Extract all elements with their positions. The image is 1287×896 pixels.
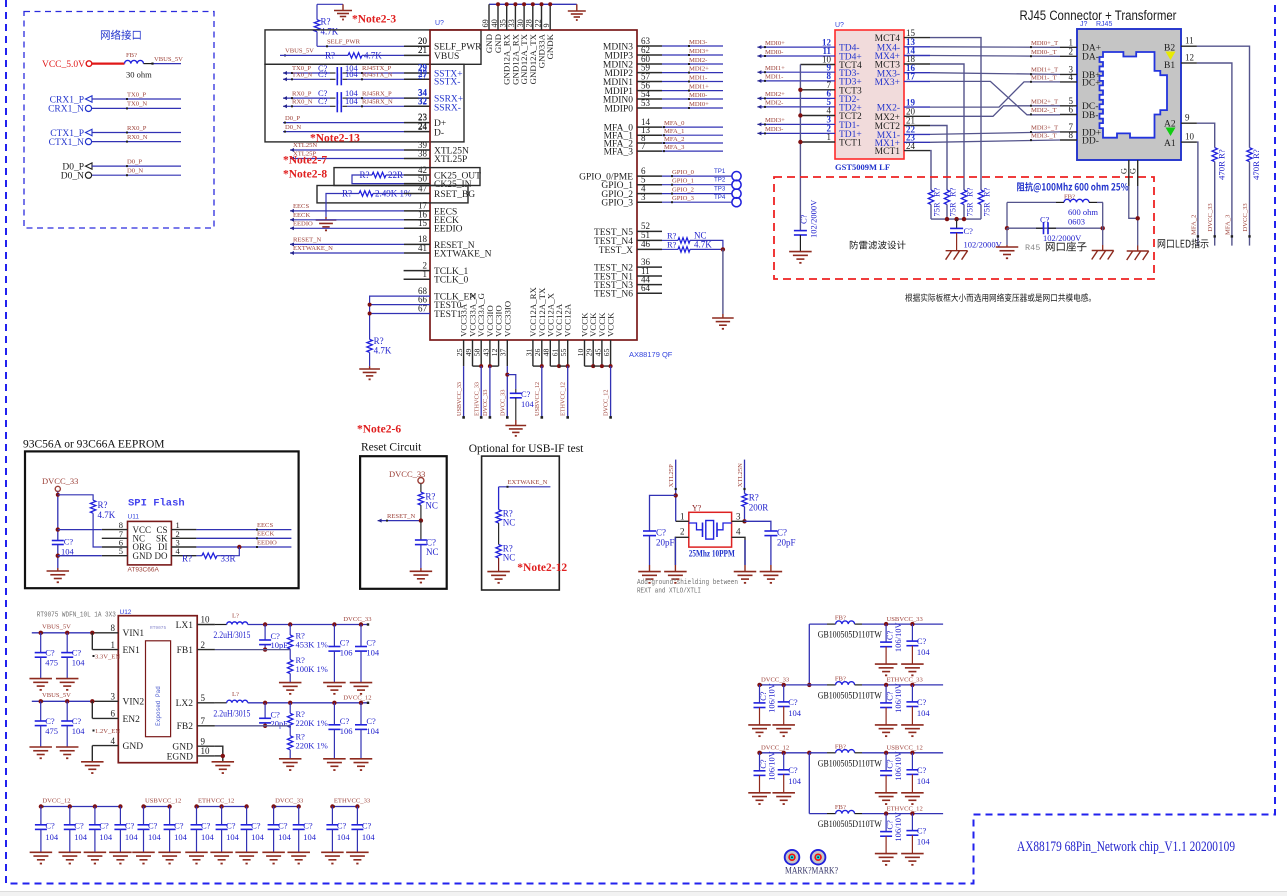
svg-text:33R: 33R [221, 554, 236, 564]
svg-text:DVCC_33: DVCC_33 [1207, 203, 1214, 232]
svg-text:DO: DO [155, 551, 168, 561]
capacitor C? 104 (output) [360, 703, 362, 725]
ground (output cap 106) [323, 758, 346, 760]
net MDI1+ wire (pin 56) [662, 90, 723, 92]
capacitor C? 104 (DVCC_12 bank) [40, 807, 42, 825]
ground (bank cap) [132, 851, 155, 853]
svg-text:C?: C? [788, 765, 798, 775]
svg-text:XTL25P: XTL25P [668, 464, 675, 487]
ground (bank cap) [109, 851, 131, 853]
svg-text:C?: C? [45, 716, 55, 726]
chassis ground (shield) [1137, 246, 1139, 252]
svg-text:RX0_N: RX0_N [127, 134, 148, 141]
net VBUS_5V rail [32, 700, 93, 702]
capacitor C? 104 (ETHVCC_12 bank) [246, 807, 248, 825]
net ETHVCC_12 decoupling rail [197, 806, 247, 808]
wire pin 49 elbow to pin 58 column [473, 365, 482, 367]
svg-text:MDI3+: MDI3+ [765, 117, 785, 124]
resistor R? 33R (EEPROM DO) [202, 553, 217, 558]
net EEDIO (pin 15) [290, 227, 404, 229]
svg-text:11: 11 [1185, 36, 1194, 46]
wire CTX1_P / net RX0_P [92, 132, 181, 134]
RJ45 connector J? body [1077, 29, 1181, 160]
chassis ground (75R bus cap) [946, 250, 968, 252]
pin 23 stub D+ [404, 122, 430, 124]
svg-text:GPIO_0: GPIO_0 [672, 169, 695, 176]
svg-text:CRX1_N: CRX1_N [48, 105, 84, 115]
svg-text:64: 64 [641, 283, 651, 293]
svg-text:3.3V_EN: 3.3V_EN [95, 654, 120, 661]
svg-text:RESET_N: RESET_N [387, 513, 415, 520]
svg-text:C?: C? [226, 820, 236, 830]
net MDI1- wire to transformer pin 8 [757, 80, 835, 82]
wire pin 48 elbow to pin 61 [550, 365, 559, 367]
net MDI1+ wire to transformer pin 9 [757, 71, 835, 73]
svg-text:20pF: 20pF [656, 538, 675, 548]
resistor R? 75R (MCT4) [978, 190, 983, 205]
test point TP2 circle [732, 180, 741, 189]
svg-text:TEST1: TEST1 [434, 310, 462, 320]
svg-text:R?: R? [749, 493, 759, 503]
svg-text:TP1: TP1 [714, 168, 726, 175]
svg-text:*Note2-3: *Note2-3 [352, 14, 396, 26]
chip top pin 35 GND12A_RX [506, 4, 508, 30]
net RESET_N wire [378, 520, 421, 522]
svg-text:600 ohm: 600 ohm [1068, 207, 1098, 217]
pin 1 stub TCLK_0 [404, 278, 430, 280]
wire DO pin 4 to 33R [171, 555, 196, 557]
svg-text:104: 104 [201, 832, 215, 842]
svg-text:C?: C? [72, 716, 82, 726]
svg-text:MFA_3: MFA_3 [664, 144, 685, 151]
svg-text:FB?: FB? [1064, 194, 1075, 201]
svg-text:C?: C? [366, 638, 376, 648]
svg-text:C?: C? [64, 537, 74, 547]
wire RJ45TX_P row [347, 72, 404, 74]
svg-text:VCC12A: VCC12A [563, 303, 573, 337]
resistor R? NC (lower) [496, 545, 501, 558]
svg-text:VBUS_5V: VBUS_5V [42, 624, 71, 631]
svg-text:B1: B1 [1164, 61, 1175, 71]
pin 34 stub [404, 97, 430, 99]
svg-text:R?: R? [182, 554, 192, 564]
svg-text:C?: C? [72, 648, 82, 658]
net MDI2+ wire to transformer pin 6 [757, 97, 835, 99]
svg-text:35: 35 [499, 19, 508, 27]
net XTL25N (pin 39) [290, 149, 404, 151]
svg-text:RESET_N: RESET_N [293, 237, 321, 244]
svg-text:MARK?MARK?: MARK?MARK? [785, 867, 838, 877]
svg-text:12: 12 [1185, 53, 1194, 63]
svg-text:RT9075 WDFN_10L 1A 3X3: RT9075 WDFN_10L 1A 3X3 [37, 612, 116, 620]
wire RJ45TX_N row [347, 78, 404, 80]
svg-text:10: 10 [1185, 132, 1195, 142]
pin 2 stub TCLK_1 [404, 270, 430, 272]
svg-text:MDI0-_T: MDI0-_T [1031, 49, 1057, 56]
svg-text:GB100505D110TW: GB100505D110TW [818, 690, 882, 700]
svg-text:104: 104 [148, 832, 162, 842]
svg-text:USBVCC_12: USBVCC_12 [145, 797, 181, 804]
pin 21 stub VBUS [404, 54, 430, 56]
net MDI2+ wire (pin 59) [662, 72, 723, 74]
net USBVCC_33 rail [862, 623, 943, 625]
net RESET_N (pin 18) [290, 243, 404, 245]
ground (TEST pulldown) [369, 366, 371, 369]
svg-text:DVCC_33: DVCC_33 [761, 677, 790, 684]
RJ45 right pin 12 [1181, 62, 1197, 64]
svg-text:ETHVCC_33: ETHVCC_33 [887, 677, 924, 684]
regulator U12 body [118, 616, 197, 763]
svg-text:MDI1-_T: MDI1-_T [1031, 74, 1057, 81]
svg-text:2: 2 [201, 640, 206, 650]
wire cap to GND pin row [57, 545, 59, 569]
svg-text:10: 10 [201, 746, 211, 756]
capacitor C? 104 (ETHVCC_12 bank) [221, 807, 223, 825]
test point TP4 circle [732, 198, 741, 207]
wire pin 9 (A2) to 470R column [1197, 123, 1215, 147]
svg-text:VCCK: VCCK [606, 312, 616, 337]
svg-text:L?: L? [232, 613, 239, 620]
ground [29, 678, 52, 680]
svg-text:Optional for USB-IF test: Optional for USB-IF test [469, 443, 584, 455]
svg-text:DC+: DC+ [1082, 78, 1101, 88]
svg-text:475: 475 [45, 658, 58, 668]
net MDI2- wire to transformer pin 5 [757, 106, 835, 108]
svg-text:4: 4 [736, 527, 741, 537]
wire pin 10 elbow to pin 29 [585, 365, 594, 367]
net EXTWAKE_N (pin 41) [290, 252, 404, 254]
svg-text:SSTX-: SSTX- [434, 77, 460, 87]
resistor R? 4.7K (EEPROM pullup) [90, 500, 95, 513]
svg-text:EECS: EECS [293, 203, 309, 210]
wire RX0_N row [283, 105, 330, 107]
svg-text:SELF_PWR: SELF_PWR [327, 38, 361, 45]
svg-text:104: 104 [337, 832, 351, 842]
capacitor C? 106/10V [885, 753, 887, 771]
svg-text:C?: C? [318, 96, 328, 106]
resistor R? 470R (B2 LED) [1247, 148, 1252, 162]
capacitor C? 104 [66, 701, 68, 721]
net DVCC_12 decoupling rail [41, 806, 121, 808]
crystal symbol [689, 523, 703, 530]
svg-text:MDI1+: MDI1+ [689, 83, 709, 90]
ground [56, 746, 78, 748]
capacitor C? 104 (ETHVCC_33 bank) [331, 807, 333, 825]
svg-text:MDIP0: MDIP0 [604, 104, 633, 114]
chip bottom pin 37 VCC33IO [506, 340, 508, 366]
inductor L? 2.2uH/3015 (DVCC_12) [215, 702, 227, 704]
svg-text:1: 1 [827, 132, 832, 142]
chip bottom pin 31 VCC12A_RX [532, 340, 534, 366]
svg-text:R?: R? [965, 187, 975, 197]
svg-text:100K 1%: 100K 1% [296, 664, 328, 674]
wire XTL25N to right load cap [745, 521, 771, 531]
net MDI1- wire (pin 57) [662, 81, 723, 83]
svg-text:USBVCC_33: USBVCC_33 [887, 616, 924, 623]
svg-text:R?: R? [1251, 149, 1261, 159]
chip bottom pin 49 VCC33A_X [472, 340, 474, 366]
svg-text:104: 104 [303, 832, 317, 842]
chip bottom pin 25 VCC33A [463, 340, 465, 366]
wire pin 12 (B1) MFA_3 column [1197, 63, 1232, 246]
svg-text:MDI0+_T: MDI0+_T [1031, 40, 1058, 47]
capacitor C? 102/2000V (75R bus) [956, 219, 958, 228]
svg-text:DVCC_12: DVCC_12 [761, 745, 789, 752]
bottom window strip [0, 892, 1287, 896]
ground (bank cap) [210, 851, 233, 853]
svg-text:17: 17 [906, 72, 916, 82]
ground (104 cap) [772, 724, 795, 726]
RJ45 left pin 2 DA- [1060, 55, 1077, 57]
wire center-tap vertical column [799, 65, 801, 231]
wire MCT1 to 75R column [930, 151, 931, 190]
resistor R? 4.7K pullup to SELF_PWR [316, 4, 318, 19]
RJ45 left pin 4 DC+ [1060, 81, 1077, 83]
svg-text:7: 7 [201, 716, 206, 726]
RJ45 shield pin G (left) [1128, 160, 1130, 186]
svg-text:104: 104 [72, 658, 86, 668]
svg-text:C?: C? [362, 820, 372, 830]
svg-text:106/10V: 106/10V [893, 750, 903, 781]
svg-text:220K 1%: 220K 1% [296, 718, 328, 728]
svg-text:104: 104 [345, 69, 359, 79]
svg-text:43: 43 [481, 349, 490, 357]
svg-text:RSET_BG: RSET_BG [434, 190, 475, 200]
ground (FB left) [1006, 245, 1008, 247]
capacitor C? 104 (EEPROM) [52, 540, 64, 542]
wire XTL25P branch to load cap [674, 493, 678, 497]
svg-text:*Note2-12: *Note2-12 [517, 562, 567, 574]
capacitor C? NC (reset) [420, 521, 422, 540]
svg-text:27: 27 [418, 71, 428, 81]
wire VCC_5.0V to FB (red) [92, 62, 125, 64]
svg-text:GPIO_3: GPIO_3 [672, 195, 695, 202]
svg-text:104: 104 [278, 832, 292, 842]
net EECK (pin 16) [290, 219, 404, 221]
svg-text:ETHVCC_33: ETHVCC_33 [474, 382, 481, 416]
svg-text:MDI1-: MDI1- [765, 74, 783, 81]
ground (bank cap) [185, 851, 208, 853]
svg-text:AX88179 68Pin_Network chip_V1.: AX88179 68Pin_Network chip_V1.1 20200109 [1017, 839, 1235, 855]
pin 50 stub [404, 183, 430, 185]
svg-text:C?: C? [174, 820, 184, 830]
svg-text:LX1: LX1 [176, 621, 194, 631]
svg-text:20pF: 20pF [271, 718, 289, 728]
group box around CK25_IN/RSET_BG [317, 186, 468, 203]
wire FB right branch down [1102, 202, 1104, 228]
svg-text:TX0_N: TX0_N [292, 72, 312, 79]
svg-text:106/10V: 106/10V [893, 682, 903, 713]
svg-text:4: 4 [111, 736, 116, 746]
label 防雷滤波设计 [850, 241, 906, 250]
svg-text:C?: C? [278, 820, 288, 830]
svg-text:R?: R? [374, 336, 384, 346]
svg-text:C?: C? [656, 528, 666, 538]
capacitor C? 106/10V [759, 753, 761, 771]
svg-text:A1: A1 [1164, 139, 1176, 149]
svg-text:MDI2-_T: MDI2-_T [1031, 107, 1057, 114]
svg-text:102/2000V: 102/2000V [809, 199, 819, 238]
wire pins 29-45-65 join / DVCC_12 column (pin 65) [591, 364, 595, 368]
svg-text:MDI0+: MDI0+ [765, 40, 785, 47]
svg-text:U?: U? [435, 20, 444, 27]
svg-text:TX0_P: TX0_P [127, 91, 146, 98]
svg-text:RX0_P: RX0_P [127, 125, 147, 132]
capacitor C? 20pF (right) [764, 530, 777, 532]
net ETHVCC_33 rail [862, 684, 943, 686]
wire FB left branch down [1006, 202, 1008, 228]
net MFA_2 wire (pin 8) [662, 142, 723, 144]
svg-text:MDI0+: MDI0+ [689, 101, 709, 108]
net GPIO_2 wire to test point TP3 [662, 193, 732, 195]
wire CRX1_N / net TX0_N [92, 107, 181, 109]
net label XTL25N (vertical) [744, 460, 746, 494]
svg-text:U11: U11 [128, 514, 140, 521]
svg-text:Exposed Pad: Exposed Pad [155, 686, 162, 726]
capacitor C? 102/2000V (across FB) [1036, 227, 1044, 229]
wire MX1- to RJ45 pin7 / net MDI3+_T [930, 132, 1060, 135]
ground (bank cap) [158, 851, 181, 853]
net MDI3+ wire to transformer pin 3 [757, 123, 835, 125]
ground (104 cap) [901, 663, 924, 665]
wire TEST_N4 to junction [690, 240, 723, 249]
svg-text:D0_P: D0_P [127, 158, 142, 165]
ground (104 cap) [901, 792, 924, 794]
svg-text:EXTWAKE_N: EXTWAKE_N [293, 245, 333, 252]
svg-text:104: 104 [788, 776, 802, 786]
svg-text:XTL25P: XTL25P [434, 155, 467, 165]
capacitor C? 10pF (feedforward) [264, 625, 266, 641]
svg-text:104: 104 [917, 647, 931, 657]
wire top GND bus [489, 3, 577, 5]
svg-text:MFA_3: MFA_3 [1224, 214, 1231, 235]
wire right branch to chassis ground [1102, 228, 1104, 245]
svg-text:DVCC_33: DVCC_33 [500, 390, 507, 416]
svg-text:GND: GND [123, 742, 144, 752]
svg-text:58: 58 [473, 349, 482, 357]
wire MCT3 to 75R column [930, 64, 964, 190]
svg-text:4: 4 [1069, 72, 1074, 82]
svg-text:C?: C? [777, 528, 787, 538]
svg-text:104: 104 [174, 832, 188, 842]
svg-text:104: 104 [125, 832, 138, 842]
RJ45 left pin 5 DC- [1060, 105, 1077, 107]
wire USBVCC_33 column (pin 25) [463, 366, 465, 417]
capacitor C? 475 [40, 701, 42, 721]
svg-text:C?: C? [964, 226, 974, 236]
wire RJ45RX_N row [347, 105, 404, 107]
op-chip U? AX88179 body [430, 30, 637, 340]
resistor R? NC (upper) [496, 510, 501, 523]
svg-text:TCLK_0: TCLK_0 [434, 276, 469, 286]
svg-text:MFA_2: MFA_2 [664, 136, 684, 143]
wire ORG pin 6 stub [102, 546, 128, 548]
svg-text:106: 106 [340, 648, 353, 658]
svg-text:6: 6 [1069, 105, 1074, 115]
net ETHVCC_12 rail [862, 813, 943, 815]
svg-text:MDI0-: MDI0- [689, 92, 707, 99]
label 网口LED指示 [1158, 239, 1209, 249]
wire D0_P to D+ [283, 122, 404, 124]
capacitor C? 104 (ETHVCC_12 bank) [196, 807, 198, 825]
network interface dashed box [24, 12, 214, 229]
svg-text:MDI3-_T: MDI3-_T [1031, 133, 1057, 140]
ground (divider) [279, 682, 302, 684]
wire TCT pin 7 to center-tap column [800, 89, 835, 91]
chassis ground (FB right) [1092, 250, 1114, 252]
svg-text:475: 475 [45, 726, 58, 736]
wire DVCC to pullup resistor [58, 495, 93, 500]
svg-text:RJ45RX_P: RJ45RX_P [362, 90, 392, 97]
svg-text:4.7K: 4.7K [321, 27, 339, 37]
ferrite bead FB? 30 ohm [125, 60, 144, 63]
wire RJ45RX_P row [347, 97, 404, 99]
ground (bank cap) [84, 851, 107, 853]
wire MX1+ to RJ45 pin8 / net MDI3-_T [930, 140, 1060, 142]
svg-text:FB?: FB? [835, 804, 846, 811]
svg-text:1: 1 [680, 512, 685, 522]
svg-text:MDI3-: MDI3- [689, 39, 707, 46]
EEPROM chip U11 body [128, 521, 172, 565]
svg-text:VIN2: VIN2 [123, 698, 145, 708]
svg-text:75R: 75R [948, 202, 958, 217]
power terminal circle VCC_5.0V [86, 61, 92, 67]
svg-text:Y?: Y? [692, 504, 702, 513]
svg-text:104: 104 [45, 832, 59, 842]
svg-text:ETHVCC_12: ETHVCC_12 [198, 797, 234, 804]
svg-text:NC: NC [503, 518, 516, 528]
ferrite bead FB? GB100505D110TW (ETHVCC_12) [809, 813, 827, 815]
wire MX2+ jog to RJ45 pin5 / net MDI2+_T [930, 106, 1060, 117]
wire ETHVCC_33 column (pin 58) [479, 364, 483, 368]
svg-text:2.2uH/3015: 2.2uH/3015 [213, 630, 250, 640]
RJ45 left pin 6 DB- [1060, 114, 1077, 116]
wire 2.49K to ground [326, 194, 359, 218]
net EXTWAKE_N wire [499, 486, 551, 488]
svg-text:ETHVCC_12: ETHVCC_12 [887, 805, 923, 812]
svg-text:21: 21 [418, 45, 427, 55]
svg-text:R?: R? [1216, 149, 1226, 159]
chip top pin 40 GND [497, 4, 499, 30]
wire FB bottom bus [1007, 227, 1103, 229]
svg-text:C?: C? [426, 538, 436, 548]
wire NC pin 7 stub [102, 537, 128, 539]
svg-text:104: 104 [788, 708, 802, 718]
capacitor C? 104 [911, 814, 913, 831]
svg-text:106/10V: 106/10V [767, 750, 777, 781]
wire TEST_X junction to ground [722, 249, 724, 314]
svg-text:DB-: DB- [1082, 111, 1098, 121]
ground (USB-IF) [487, 571, 510, 573]
capacitor C? 104 [911, 685, 913, 702]
svg-text:C?: C? [917, 826, 927, 836]
svg-text:RT9075: RT9075 [150, 625, 167, 631]
svg-text:DVCC_33: DVCC_33 [42, 476, 78, 486]
svg-text:L?: L? [232, 691, 239, 698]
chip top pin 33 GND12A_RX [514, 4, 516, 30]
svg-text:106/10V: 106/10V [767, 682, 777, 713]
svg-text:MDI1+_T: MDI1+_T [1031, 67, 1058, 74]
svg-text:9: 9 [1185, 113, 1190, 123]
capacitor C? 104 [783, 753, 785, 770]
ground (106/10V cap) [875, 663, 898, 665]
resistor R? 200R (XTL25N) [742, 494, 747, 507]
wire EN1 tie to VIN1 [91, 633, 93, 650]
svg-text:VBUS: VBUS [434, 52, 459, 62]
svg-text:REXT and XTLO/XTLI: REXT and XTLO/XTLI [637, 588, 701, 596]
svg-text:EEDIO: EEDIO [434, 225, 463, 235]
svg-text:RJ45RX_N: RJ45RX_N [362, 99, 393, 106]
